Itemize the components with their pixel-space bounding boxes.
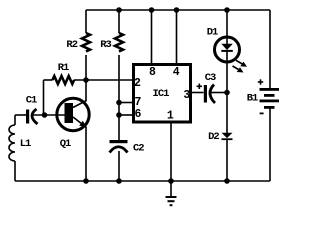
- svg-text:R2: R2: [66, 39, 77, 51]
- svg-text:C3: C3: [205, 72, 216, 84]
- svg-text:R1: R1: [58, 62, 69, 74]
- svg-text:4: 4: [173, 66, 180, 79]
- svg-text:3: 3: [183, 89, 190, 102]
- svg-text:C1: C1: [26, 95, 37, 107]
- svg-text:2: 2: [134, 77, 141, 90]
- svg-text:L1: L1: [20, 138, 31, 150]
- svg-text:C2: C2: [133, 142, 144, 154]
- svg-text:D1: D1: [207, 27, 218, 39]
- svg-text:6: 6: [135, 108, 142, 121]
- svg-text:1: 1: [167, 109, 174, 122]
- svg-text:IC1: IC1: [153, 88, 170, 100]
- svg-text:R3: R3: [100, 39, 111, 51]
- svg-text:Q1: Q1: [60, 138, 71, 150]
- svg-text:B1: B1: [247, 92, 258, 104]
- svg-text:D2: D2: [208, 131, 219, 143]
- svg-text:8: 8: [149, 66, 156, 79]
